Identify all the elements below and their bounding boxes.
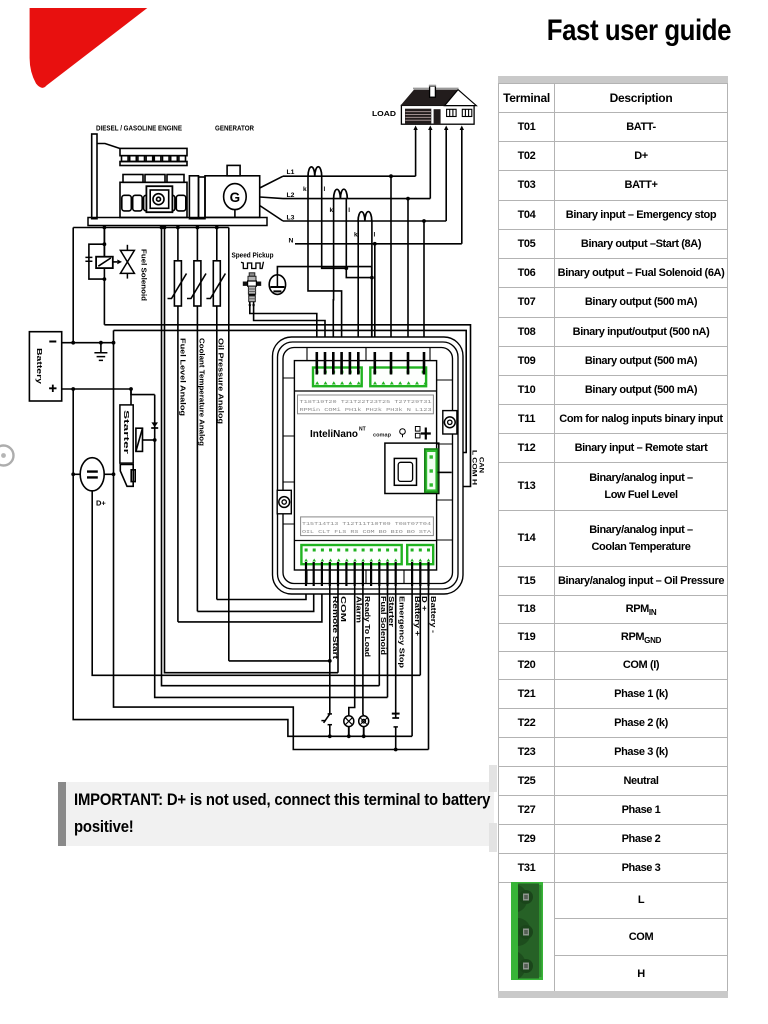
load house body <box>401 105 474 124</box>
company logo (red swoosh) <box>0 0 200 120</box>
scanner smudge 1 <box>489 765 497 792</box>
load house garage door <box>405 109 431 124</box>
wire battery minus rail <box>62 342 114 344</box>
CAN connector photo in table <box>511 882 543 980</box>
speed pickup output wire 1 (to RPM IN) <box>248 302 316 374</box>
controller case outer <box>273 337 464 594</box>
wire battery plus to starter <box>130 389 132 405</box>
svg-text:InteliNano: InteliNano <box>310 428 358 440</box>
indicator icons block <box>415 427 430 440</box>
CAN terminal connector <box>425 449 438 492</box>
sensor return rail oil pressure (T15) <box>217 563 306 600</box>
wire engine chassis to COM rail <box>165 228 339 673</box>
terminal number strip bottom <box>301 517 434 536</box>
load house chimney <box>429 86 436 98</box>
bottom terminal connector left (T04-T15) <box>301 545 401 564</box>
svg-text:N: N <box>289 238 294 245</box>
wire COM signal T11 <box>337 563 339 673</box>
wire battery plus signal T03 <box>411 563 413 736</box>
indicator icon bulb <box>400 429 406 438</box>
svg-text:Starter: Starter <box>387 596 396 627</box>
generator body <box>205 165 260 217</box>
svg-text:D+: D+ <box>96 499 106 508</box>
svg-text:Fual Solenoid: Fual Solenoid <box>379 596 388 655</box>
voltage sense tap L2 to T29 <box>406 197 410 374</box>
svg-text:T18T19T20 T21T22T23T25 T27T29T: T18T19T20 T21T22T23T25 T27T29T31 <box>300 399 432 405</box>
CT current transformer 3 on L3 <box>358 212 372 221</box>
junction dots battery minus rail <box>71 341 115 345</box>
wire generator fan-out to L1 L2 L3 <box>260 176 283 221</box>
wire CAN line A (outer) <box>104 325 470 487</box>
fuel solenoid relay coil <box>85 228 112 325</box>
ground symbol <box>94 343 107 361</box>
svg-text:Alarm: Alarm <box>354 596 363 623</box>
controller front panel <box>294 361 436 570</box>
starter pinion <box>120 465 135 487</box>
svg-text:Fuel Level Analog: Fuel Level Analog <box>178 338 187 417</box>
junction dot CT l common 2 <box>370 276 374 280</box>
wire alarm signal T07 <box>349 563 355 716</box>
wire L1 <box>283 175 416 177</box>
svg-text:Oil Pressure Analog: Oil Pressure Analog <box>217 338 226 425</box>
wire L3 <box>283 220 446 222</box>
sensor oil pressure <box>206 228 225 600</box>
CAN COM stub to chassis <box>438 471 452 473</box>
wire battery plus rail <box>62 388 131 390</box>
speed pickup output wire 2 (to RPM GND) <box>252 302 325 374</box>
voltage sense tap L1 to T27 <box>389 174 393 374</box>
svg-text:L1: L1 <box>287 169 295 176</box>
svg-text:L2: L2 <box>287 192 295 199</box>
wire stubs into top connectors <box>317 352 424 375</box>
CT1 l wire <box>322 176 347 268</box>
chassis earth symbol in circle <box>269 275 285 295</box>
wire engine chassis rail <box>73 227 229 229</box>
svg-text:NT: NT <box>359 427 366 433</box>
load house door <box>434 109 441 125</box>
wire alternator right terminal <box>104 472 115 476</box>
wire remote start signal T12 <box>329 563 331 714</box>
mounting ear left <box>277 490 291 514</box>
panel line below top connectors <box>294 390 436 392</box>
svg-text:Battery -: Battery - <box>429 596 438 634</box>
svg-text:D +: D + <box>420 596 429 611</box>
engine base skid <box>88 218 267 226</box>
voltage sense tap N to T25 <box>373 242 377 374</box>
load house window 2 <box>462 109 472 116</box>
wire long vertical from chassis rail end <box>228 228 230 661</box>
svg-text:LOAD: LOAD <box>372 109 397 118</box>
wire starter signal T05 <box>387 563 389 697</box>
terminal description table <box>498 83 728 993</box>
junction dots on chassis rail <box>103 226 219 230</box>
sensor coolant temperature <box>187 228 206 612</box>
starter motor solenoid box <box>120 405 133 463</box>
InteliNano logo <box>310 427 366 441</box>
junction dots on battery plus return rail <box>328 734 398 751</box>
svg-text:RPMin COMi PH1k PH2k PH3k N L1: RPMin COMi PH1k PH2k PH3k N L123 <box>300 407 432 413</box>
svg-text:DIESEL / GASOLINE ENGINE: DIESEL / GASOLINE ENGINE <box>96 124 182 133</box>
wire N <box>295 243 462 245</box>
CT1 k wire to T21 <box>308 176 342 374</box>
wire alternator left terminal <box>71 472 80 476</box>
wire engine chassis to fuel solenoid rail <box>162 228 380 686</box>
wire battery minus signal T01 <box>428 563 430 750</box>
top terminal connector right (T25-T31) <box>370 368 427 387</box>
engine starter motor <box>146 186 172 212</box>
wire earth to controller <box>277 267 371 374</box>
terminal number strip top <box>298 395 434 414</box>
CT2 k wire to T22 <box>332 199 334 374</box>
sensor return rail coolant (T14) <box>197 563 313 611</box>
wire emergency stop signal T04 <box>395 563 397 714</box>
svg-text:COM: COM <box>339 596 348 622</box>
svg-text:Battery: Battery <box>35 348 44 384</box>
fuel solenoid actuation arrow <box>113 260 122 265</box>
speed pickup waveform icon <box>241 262 264 269</box>
top terminal connector left (T18-T23) <box>313 368 362 387</box>
case margin segment ticks <box>283 348 453 584</box>
gray bar above table <box>498 76 728 83</box>
mounting ear right <box>443 411 457 434</box>
wire stubs out of bottom connectors <box>306 562 429 586</box>
svg-text:Emergency Stop: Emergency Stop <box>398 596 407 669</box>
bottom terminal connector right (T01-T03) <box>407 545 433 564</box>
panel line above bottom connectors <box>294 540 436 542</box>
CT3 k wire to T23 <box>357 221 359 374</box>
svg-text:T15T14T13 T12T11T10T09 T08T07T: T15T14T13 T12T11T10T09 T08T07T04 <box>302 521 431 527</box>
svg-text:CAN: CAN <box>478 457 485 473</box>
load house roof <box>400 88 476 105</box>
battery <box>29 332 61 401</box>
svg-text:comap: comap <box>373 433 392 439</box>
wire alternator D+ terminal to T02 <box>92 490 420 675</box>
gray bar below table <box>498 991 728 998</box>
wire battery minus loop via COM rail <box>114 330 429 749</box>
svg-text:l: l <box>348 207 350 214</box>
svg-text:L3: L3 <box>287 215 295 222</box>
scanner smudge 2 <box>489 823 497 852</box>
speed pickup sensor <box>243 273 261 302</box>
wire ready to load signal T08 <box>362 563 365 716</box>
generator G symbol <box>224 184 247 218</box>
starter contact <box>136 428 155 451</box>
svg-text:Coolant Temperature Analog: Coolant Temperature Analog <box>197 338 206 447</box>
svg-text:Fuel Solenoid: Fuel Solenoid <box>140 249 149 302</box>
load arrow up from N <box>460 126 464 244</box>
sensor return rail fuel level (T13) <box>178 563 322 622</box>
controller case inner <box>283 348 453 584</box>
junction dot CT l common 1 <box>344 266 348 270</box>
load arrow up from L1 <box>413 126 417 177</box>
wire battery plus down-left loop <box>73 389 412 736</box>
IMPORTANT note <box>58 782 494 846</box>
CT2 l wire <box>346 199 372 278</box>
wire chassis to battery minus <box>72 228 74 343</box>
ready to load lamp <box>359 716 369 737</box>
svg-text:Remote Start: Remote Start <box>331 596 340 660</box>
charging alternator D+ <box>80 458 106 508</box>
wire L2 <box>283 198 430 200</box>
punch hole mark at page edge <box>0 446 14 466</box>
wire CAN line B (inner) <box>114 330 467 452</box>
CT current transformer 2 on L2 <box>334 189 348 198</box>
svg-text:OIL CLT FLS RS COM BO BIO BO S: OIL CLT FLS RS COM BO BIO BO STA <box>302 529 431 535</box>
CT3 l wire common to T20 <box>350 221 372 374</box>
load arrow up from L3 <box>444 126 448 222</box>
fuel solenoid valve <box>120 245 134 279</box>
wire fuel solenoid signal T06 <box>378 563 380 686</box>
svg-text:GENERATOR: GENERATOR <box>215 124 255 133</box>
svg-text:Starter: Starter <box>122 410 131 454</box>
svg-text:k: k <box>330 207 334 214</box>
alarm lamp <box>344 716 354 737</box>
sensor fuel level (variable resistor) <box>168 228 187 622</box>
emergency stop button <box>392 714 400 750</box>
remote start switch <box>321 714 332 736</box>
wire D plus signal T02 <box>419 563 421 675</box>
svg-text:k: k <box>303 186 307 193</box>
page title <box>461 14 731 48</box>
CAN interface box <box>385 443 439 493</box>
svg-text:Speed Pickup: Speed Pickup <box>232 251 274 260</box>
engine block <box>120 148 187 217</box>
CAN display window <box>394 458 416 485</box>
svg-text:k: k <box>354 232 358 239</box>
voltage sense tap L3 to T31 <box>422 219 426 374</box>
junction dots battery plus rail <box>71 387 133 391</box>
svg-text:G: G <box>230 190 241 205</box>
load arrow up from L2 <box>428 126 432 199</box>
diode <box>151 422 158 428</box>
svg-text:Ready To Load: Ready To Load <box>363 596 372 657</box>
wire remote start rail <box>229 660 330 662</box>
engine flywheel housing <box>189 176 205 219</box>
engine exhaust pipe <box>92 134 120 219</box>
wire starter signal from T-strip <box>131 389 388 697</box>
load house window 1 <box>447 109 457 116</box>
CT current transformer 1 on L1 <box>308 167 322 176</box>
svg-text:L COM H: L COM H <box>471 450 477 485</box>
junction dot remote start rail <box>328 659 332 663</box>
svg-text:l: l <box>374 232 376 239</box>
controller case middle <box>278 342 459 589</box>
svg-text:l: l <box>324 186 326 193</box>
